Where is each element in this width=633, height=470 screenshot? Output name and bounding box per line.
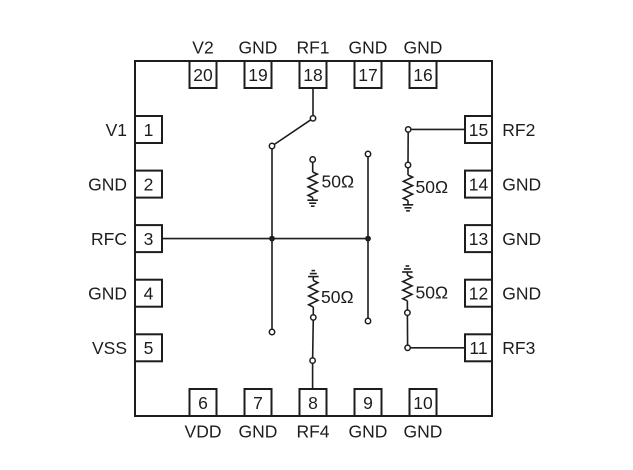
pin 18 (RF1) top: [296, 37, 329, 88]
svg-text:RF3: RF3: [502, 338, 535, 358]
pin 19 (GND) top: [239, 37, 278, 88]
svg-text:16: 16: [413, 65, 432, 85]
svg-text:RFC: RFC: [91, 229, 127, 249]
switch SW3 arm (RF3 to R3 termination): [406, 313, 408, 348]
svg-text:17: 17: [358, 65, 377, 85]
wire pin 15 lead (RF2): [408, 128, 465, 130]
svg-text:GND: GND: [502, 229, 541, 249]
svg-text:6: 6: [198, 393, 208, 413]
pin 3 (RFC) left: [91, 225, 162, 252]
node junction RFC/left branch: [269, 236, 275, 242]
svg-text:VSS: VSS: [92, 338, 127, 358]
resistor R2 50Ω (RF2 termination): [403, 168, 412, 205]
switch SW2 arm (RF2 to R2 termination): [407, 129, 409, 165]
wire pin 18 lead (RF1): [312, 88, 314, 118]
ground (R3): [402, 266, 413, 272]
node contact: RF4 pole (pin 8 lead): [310, 358, 315, 363]
IC package outline U1: [135, 61, 492, 416]
svg-text:50Ω: 50Ω: [322, 172, 355, 192]
svg-text:2: 2: [144, 174, 154, 194]
pin 16 (GND) top: [404, 37, 443, 88]
svg-text:V2: V2: [192, 37, 213, 57]
ground (R2): [403, 205, 413, 211]
node contact: RF3 pole (pin 11 lead): [405, 345, 410, 350]
svg-text:19: 19: [248, 65, 267, 85]
node contact: RF2 pole (pin 15 lead): [406, 127, 411, 132]
pin 9 (GND) bottom: [349, 389, 388, 441]
svg-text:50Ω: 50Ω: [416, 177, 449, 197]
svg-text:GND: GND: [239, 421, 278, 441]
node contact: RF1 pole (pin 18 lead): [310, 116, 315, 121]
node contact: R2 termination top: [405, 162, 410, 167]
svg-text:GND: GND: [239, 37, 278, 57]
svg-text:12: 12: [469, 284, 488, 304]
svg-text:RF1: RF1: [296, 37, 329, 57]
svg-text:15: 15: [469, 120, 488, 140]
node contact: RFC left branch top: [269, 143, 274, 148]
svg-text:5: 5: [144, 338, 154, 358]
resistor R3 50Ω (RF3 termination): [403, 272, 412, 310]
wire RFC net (pin 3 to branch verticals): [162, 238, 368, 240]
pin 7 (GND) bottom: [239, 389, 278, 441]
wire pin 11 lead (RF3): [408, 347, 465, 349]
switch SW4 arm (RF4 to R4 termination): [312, 317, 315, 360]
pin 5 (VSS) left: [92, 334, 162, 361]
ground (R4): [308, 271, 319, 277]
svg-text:13: 13: [469, 229, 488, 249]
pin 1 (V1) left: [106, 116, 162, 143]
svg-text:14: 14: [469, 174, 489, 194]
svg-text:11: 11: [469, 338, 487, 358]
svg-text:GND: GND: [349, 421, 388, 441]
svg-text:1: 1: [144, 120, 154, 140]
pin 2 (GND) left: [88, 171, 162, 198]
pin 10 (GND) bottom: [404, 389, 443, 441]
svg-text:GND: GND: [88, 174, 127, 194]
node junction RFC/right branch: [365, 236, 371, 242]
pin 15 (RF2) right: [465, 116, 535, 143]
svg-text:8: 8: [308, 393, 318, 413]
svg-text:9: 9: [363, 393, 373, 413]
svg-text:20: 20: [193, 65, 213, 85]
pin 8 (RF4) bottom: [296, 389, 329, 441]
svg-text:VDD: VDD: [185, 421, 222, 441]
svg-text:GND: GND: [502, 174, 541, 194]
svg-text:18: 18: [303, 65, 322, 85]
svg-text:RF4: RF4: [296, 421, 329, 441]
wire right branch vertical (RF2/RF3 throw contacts): [367, 154, 369, 321]
svg-text:GND: GND: [404, 37, 443, 57]
svg-text:7: 7: [253, 393, 263, 413]
node contact: R4 termination bottom: [311, 315, 316, 320]
ground (R1): [307, 200, 318, 206]
resistor R4 50Ω (RF4 termination): [309, 277, 318, 315]
svg-text:GND: GND: [349, 37, 388, 57]
svg-text:GND: GND: [88, 284, 127, 304]
node contact: R1 termination top: [310, 157, 315, 162]
node contact: R3 termination bottom: [405, 310, 410, 315]
svg-text:GND: GND: [502, 284, 541, 304]
node contact: RFC left branch bottom: [269, 329, 274, 334]
pin 11 (RF3) right: [465, 334, 535, 361]
node contact: RFC right branch bottom: [365, 318, 370, 323]
pin 17 (GND) top: [349, 37, 388, 88]
pin 13 (GND) right: [465, 225, 541, 252]
svg-text:V1: V1: [106, 120, 127, 140]
svg-text:10: 10: [413, 393, 433, 413]
svg-text:4: 4: [144, 284, 154, 304]
resistor R1 50Ω (RF1 termination): [308, 162, 317, 200]
switch SW1 arm (RF1 to RFC branch, closed): [272, 118, 313, 146]
wire left branch vertical (RF1/RF4 throw contacts): [271, 146, 273, 332]
svg-text:50Ω: 50Ω: [416, 283, 449, 303]
svg-text:RF2: RF2: [502, 120, 535, 140]
pin 4 (GND) left: [88, 280, 162, 307]
svg-text:GND: GND: [404, 421, 443, 441]
svg-text:3: 3: [144, 229, 154, 249]
svg-text:50Ω: 50Ω: [321, 287, 354, 307]
wire pin 8 lead (RF4): [312, 361, 314, 389]
pin 12 (GND) right: [465, 280, 541, 307]
pin 14 (GND) right: [465, 171, 541, 198]
node contact: RFC right branch top: [365, 151, 370, 156]
pin 6 (VDD) bottom: [185, 389, 222, 441]
pin 20 (V2) top: [190, 37, 217, 88]
